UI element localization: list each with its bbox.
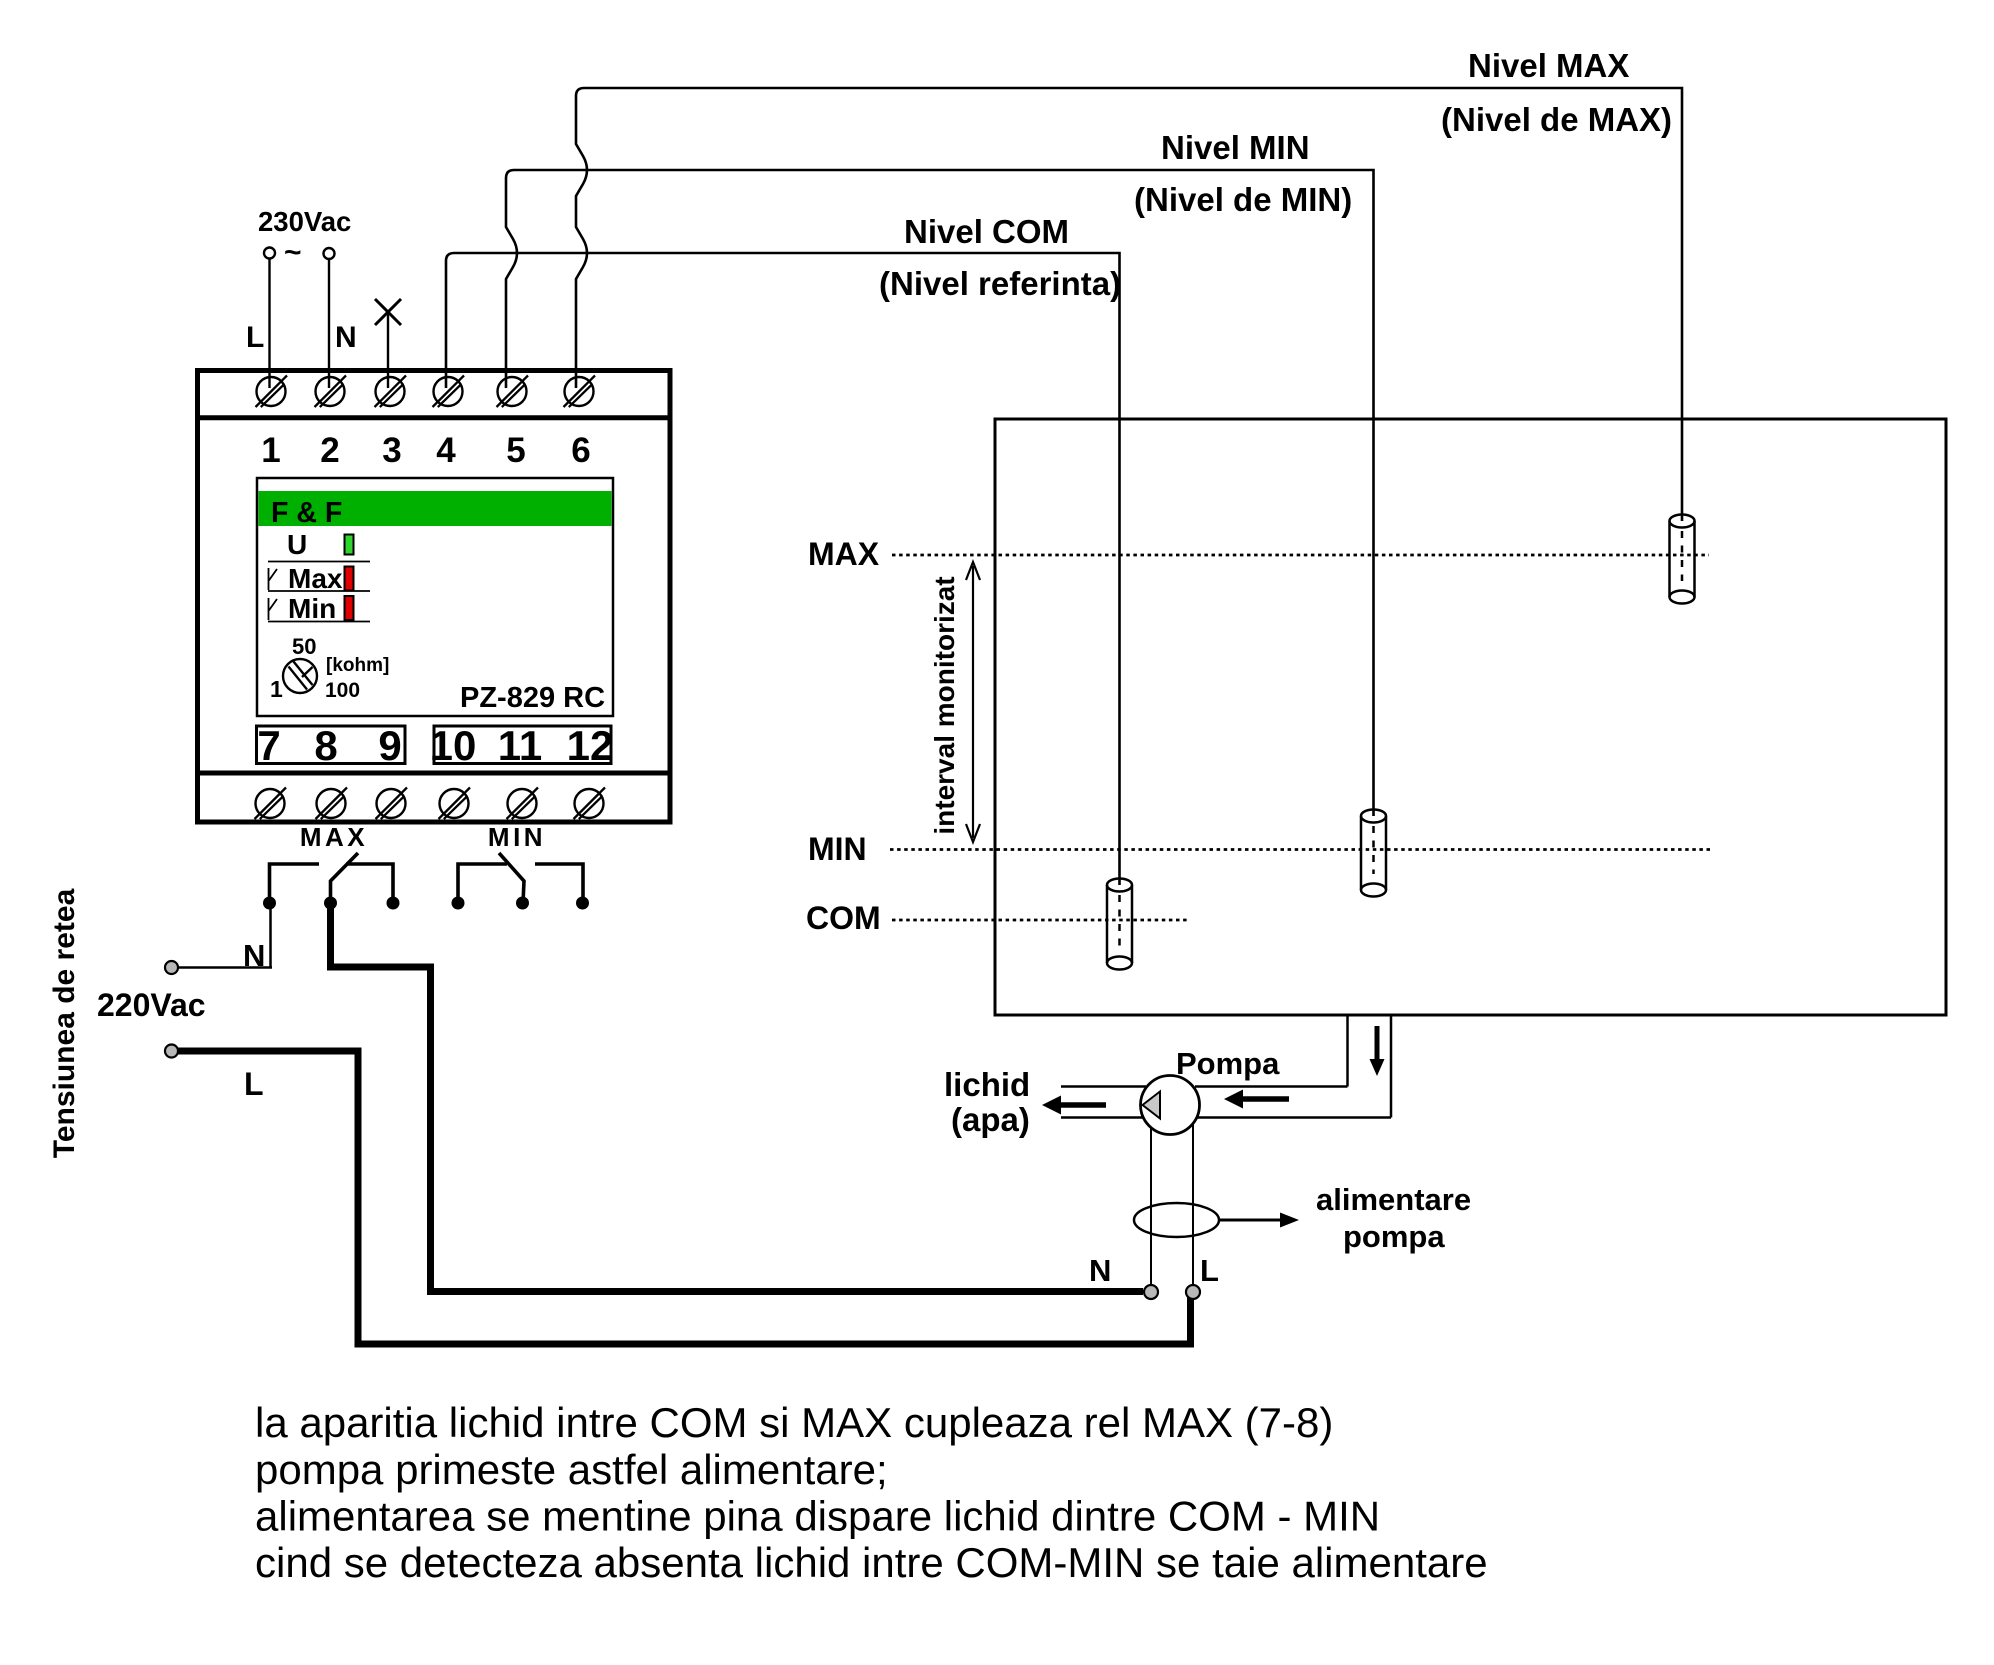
- svg-text:COM: COM: [806, 900, 881, 936]
- svg-text:11: 11: [498, 722, 542, 769]
- svg-text:pompa: pompa: [1343, 1219, 1445, 1254]
- svg-text:Nivel COM: Nivel COM: [904, 213, 1069, 250]
- svg-text:L: L: [244, 1066, 264, 1102]
- svg-text:N: N: [335, 321, 357, 354]
- svg-text:interval monitorizat: interval monitorizat: [929, 576, 960, 834]
- svg-text:Nivel MAX: Nivel MAX: [1468, 47, 1629, 84]
- svg-text:12: 12: [567, 722, 614, 769]
- svg-text:L: L: [246, 321, 264, 354]
- svg-text:PZ-829 RC: PZ-829 RC: [460, 682, 605, 714]
- svg-text:pompa primeste astfel alimenta: pompa primeste astfel alimentare;: [255, 1446, 888, 1493]
- svg-text:F & F: F & F: [271, 497, 342, 529]
- svg-text:9: 9: [378, 722, 401, 769]
- svg-text:(Nivel referinta): (Nivel referinta): [879, 265, 1121, 302]
- svg-text:L: L: [1200, 1253, 1219, 1288]
- svg-text:5: 5: [506, 431, 525, 470]
- svg-text:MAX: MAX: [300, 822, 368, 852]
- svg-text:Nivel MIN: Nivel MIN: [1161, 129, 1310, 166]
- svg-text:Max: Max: [288, 563, 343, 594]
- svg-text:la aparitia lichid intre COM s: la aparitia lichid intre COM si MAX cupl…: [255, 1399, 1333, 1446]
- svg-text:alimentare: alimentare: [1316, 1182, 1471, 1217]
- svg-text:1: 1: [270, 676, 283, 702]
- svg-text:lichid: lichid: [944, 1066, 1030, 1103]
- svg-text:~: ~: [284, 236, 302, 269]
- svg-text:[kohm]: [kohm]: [326, 655, 389, 676]
- svg-text:50: 50: [292, 634, 316, 659]
- svg-text:230Vac: 230Vac: [258, 206, 351, 237]
- svg-text:Pompa: Pompa: [1176, 1046, 1280, 1081]
- svg-text:(Nivel de MIN): (Nivel de MIN): [1134, 181, 1352, 218]
- svg-text:Tensiunea de retea: Tensiunea de retea: [48, 888, 81, 1158]
- svg-text:MIN: MIN: [488, 822, 546, 852]
- svg-text:6: 6: [571, 431, 590, 470]
- svg-text:8: 8: [314, 722, 337, 769]
- svg-text:7: 7: [257, 722, 280, 769]
- svg-text:Min: Min: [288, 593, 336, 624]
- svg-text:1: 1: [261, 431, 280, 470]
- svg-text:2: 2: [320, 431, 339, 470]
- svg-text:N: N: [1089, 1253, 1111, 1288]
- svg-text:cind se detecteza absenta lich: cind se detecteza absenta lichid intre C…: [255, 1539, 1488, 1586]
- svg-text:U: U: [287, 529, 307, 560]
- svg-text:3: 3: [382, 431, 401, 470]
- svg-text:(apa): (apa): [951, 1101, 1030, 1138]
- svg-text:(Nivel de MAX): (Nivel de MAX): [1441, 101, 1672, 138]
- svg-text:alimentarea se mentine pina di: alimentarea se mentine pina dispare lich…: [255, 1493, 1380, 1540]
- svg-text:MAX: MAX: [808, 536, 880, 572]
- svg-text:MIN: MIN: [808, 831, 867, 867]
- svg-text:100: 100: [325, 679, 360, 702]
- svg-text:10: 10: [430, 722, 477, 769]
- svg-text:220Vac: 220Vac: [97, 987, 206, 1023]
- svg-text:4: 4: [436, 431, 456, 470]
